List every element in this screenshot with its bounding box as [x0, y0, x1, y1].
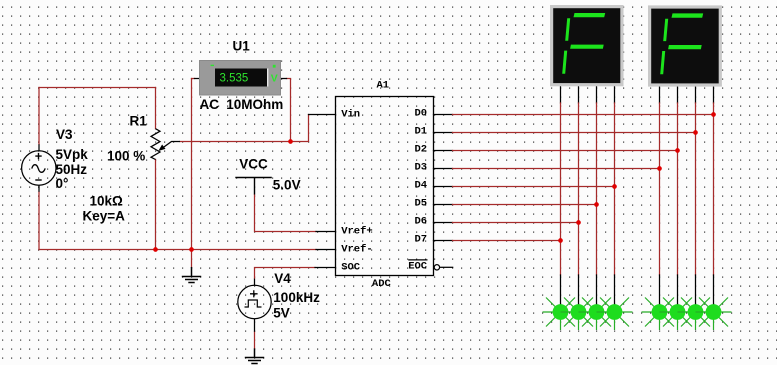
junction D1: [693, 130, 698, 135]
junction D5: [594, 202, 599, 207]
svg-text:V: V: [271, 73, 278, 85]
junction bottom wire / R1: [153, 247, 158, 252]
svg-text:100 %: 100 %: [107, 149, 145, 164]
svg-text:100kHz: 100kHz: [273, 290, 320, 305]
wire V3 bottom: [38, 192, 40, 250]
wire VCC to Vref+: [255, 195, 317, 232]
multimeter display highlight edge: [267, 69, 268, 87]
svg-text:50Hz: 50Hz: [56, 162, 88, 177]
D2 wire: [434, 150, 678, 152]
vertical wire display1 pin2 to probe2 (D6): [578, 86, 580, 304]
svg-text:D7: D7: [415, 234, 428, 246]
wire R1 bottom: [155, 160, 157, 250]
svg-text:10kΩ: 10kΩ: [90, 194, 124, 209]
probe X3: [579, 298, 615, 331]
svg-text:3.535: 3.535: [220, 73, 249, 85]
clock source V4: [238, 279, 271, 332]
svg-text:ADC: ADC: [372, 278, 392, 290]
wire top horizontal: [39, 87, 156, 89]
wire junction to Vin: [291, 115, 309, 142]
svg-text:Vref-: Vref-: [341, 244, 373, 256]
svg-text:VCC: VCC: [239, 157, 268, 172]
svg-text:D6: D6: [415, 216, 428, 228]
EOC open circle (inverted output): [434, 265, 439, 270]
svg-text:0°: 0°: [56, 176, 69, 191]
D6 wire: [434, 222, 579, 224]
junction D0: [711, 112, 716, 117]
pin stub Vin: [309, 114, 336, 116]
wire multimeter right: [287, 79, 291, 142]
D0 wire: [434, 114, 714, 116]
R1 wiper arrowhead: [158, 145, 165, 152]
probe X6: [660, 298, 696, 331]
svg-text:5V: 5V: [273, 306, 290, 321]
multimeter green dot: [273, 65, 276, 68]
ground GND2: [245, 348, 264, 363]
seven segment display U2: [550, 5, 624, 86]
probe X2: [561, 298, 597, 331]
svg-text:V4: V4: [274, 271, 291, 286]
svg-text:D1: D1: [415, 126, 428, 138]
EOC stub: [440, 266, 454, 268]
junction D6: [576, 220, 581, 225]
probe X1: [543, 298, 579, 331]
wire V4 to ground2: [254, 332, 256, 349]
wire multimeter left vertical: [191, 79, 193, 250]
probe X7: [678, 298, 714, 331]
wire bottom horizontal to Vref-: [39, 249, 316, 251]
seven segment display U3: [648, 5, 722, 86]
D1 wire: [434, 132, 696, 134]
junction bottom wire / ground: [189, 247, 194, 252]
svg-text:D4: D4: [415, 180, 428, 192]
source V3 sine: [22, 144, 56, 192]
svg-text:EOC: EOC: [408, 261, 428, 273]
svg-text:Vref+: Vref+: [341, 226, 373, 238]
pin stub multimeter right: [281, 78, 287, 80]
vertical wire display2 pin3 to probe7 (D1): [695, 87, 697, 305]
svg-text:10MOhm: 10MOhm: [226, 97, 283, 112]
multimeter minus mark: [211, 65, 214, 66]
svg-text:D5: D5: [415, 198, 428, 210]
svg-text:Key=A: Key=A: [83, 209, 126, 224]
ground GND1: [182, 267, 201, 283]
wire V3 top vertical: [38, 88, 40, 145]
D3 wire: [434, 168, 660, 170]
wire R1 wiper to junction: [180, 141, 291, 143]
svg-text:D0: D0: [415, 108, 428, 120]
wire R1 top: [155, 88, 157, 129]
svg-text:AC: AC: [200, 97, 220, 112]
multimeter display window: [215, 69, 267, 87]
vertical wire display1 pin3 to probe3 (D5): [596, 86, 598, 304]
vertical wire display2 pin4 to probe8 (D0): [713, 87, 715, 305]
vertical wire display1 pin1 to probe1 (D7): [560, 86, 562, 304]
D5 wire: [434, 204, 597, 206]
svg-text:D2: D2: [415, 144, 428, 156]
junction D4: [612, 184, 617, 189]
svg-text:V3: V3: [56, 127, 73, 142]
vertical wire display1 pin4 to probe4 (D4): [614, 86, 616, 304]
pin stub Vref+: [316, 231, 336, 233]
svg-text:D3: D3: [415, 162, 428, 174]
op-amp/ADC box A1: [336, 97, 434, 276]
probe X4: [597, 298, 633, 331]
pin stub SOC: [315, 267, 336, 269]
vertical wire display2 pin2 to probe6 (D2): [677, 87, 679, 305]
pin stub multimeter left: [195, 78, 200, 80]
probe X5: [642, 298, 678, 331]
D4 wire: [434, 186, 615, 188]
junction wiper / multimeter: [288, 139, 293, 144]
pin stub Vref-: [316, 249, 336, 251]
svg-text:5Vpk: 5Vpk: [56, 147, 89, 162]
svg-text:U1: U1: [233, 39, 251, 54]
wire V4 to SOC: [255, 268, 316, 279]
svg-text:Vin: Vin: [341, 109, 360, 121]
wire multimeter left horizontal: [192, 78, 195, 80]
junction D2: [675, 148, 680, 153]
VCC power symbol: [235, 178, 271, 195]
probe X8: [696, 298, 732, 331]
svg-text:5.0V: 5.0V: [273, 178, 301, 193]
vertical wire display2 pin1 to probe5 (D3): [659, 87, 661, 305]
potentiometer R1: [151, 129, 180, 160]
svg-text:R1: R1: [130, 114, 148, 129]
multimeter U1 body: [200, 61, 281, 96]
D7 wire: [434, 240, 561, 242]
junction D7: [558, 238, 563, 243]
junction D3: [657, 166, 662, 171]
svg-text:A1: A1: [377, 80, 390, 92]
wire ground1 stem: [191, 250, 193, 268]
svg-text:SOC: SOC: [341, 262, 361, 274]
